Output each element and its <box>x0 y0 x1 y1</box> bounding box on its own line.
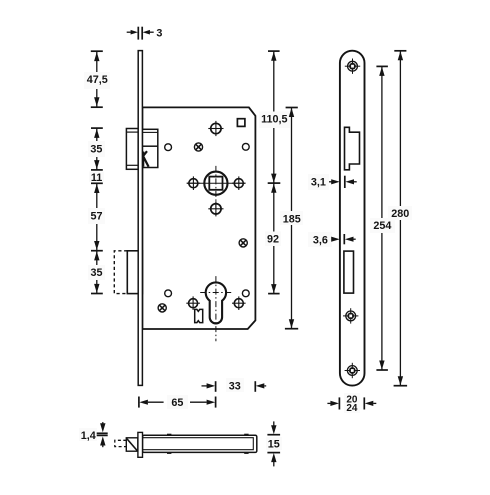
dimension texts <box>81 28 410 451</box>
254 arrows <box>379 67 384 76</box>
plate screw hole bottom <box>345 363 360 378</box>
dimension shafts <box>97 32 401 466</box>
dimension ticks <box>91 27 407 453</box>
dim 3,6 shafts <box>329 238 332 240</box>
text halos <box>79 72 412 450</box>
svg-text:3: 3 <box>156 28 162 40</box>
lock case body outline <box>142 107 255 329</box>
svg-text:3,6: 3,6 <box>313 234 328 246</box>
cylinder vertical centerline <box>215 276 217 341</box>
side view latch dashed retracted <box>115 440 127 446</box>
side view latch bolt <box>126 438 138 451</box>
57 arrows <box>94 184 99 193</box>
35b arrows <box>94 251 99 260</box>
svg-text:185: 185 <box>283 213 301 225</box>
striking plate front view <box>340 51 365 386</box>
65 arrows <box>139 400 148 405</box>
svg-text:254: 254 <box>373 220 391 232</box>
dim 15 shafts <box>273 421 275 425</box>
65 ticks <box>138 397 140 408</box>
deadbolt solid <box>127 251 142 294</box>
110,5 arrows <box>271 52 276 61</box>
dim 65 shafts <box>148 401 164 403</box>
dim 1,4 shafts <box>102 422 104 424</box>
dim 3,1 shafts <box>328 181 331 183</box>
dim 3 arrows <box>131 30 138 35</box>
svg-text:11: 11 <box>91 172 102 184</box>
185 arrows <box>289 108 294 117</box>
dim line 280 <box>399 51 401 386</box>
15 ticks <box>267 434 280 436</box>
dim 3 ticks <box>137 27 139 40</box>
svg-text:92: 92 <box>267 234 279 246</box>
svg-text:35: 35 <box>90 144 102 156</box>
dim line 110,5 / 92 <box>273 51 275 182</box>
euro cylinder profile <box>206 282 226 323</box>
47,5 arrows <box>94 52 99 61</box>
svg-text:15: 15 <box>268 438 280 450</box>
hub horizontal centerline <box>187 182 245 184</box>
15 arrows <box>271 425 276 434</box>
spring pictogram flag <box>195 309 203 322</box>
hub screw bottom <box>208 201 223 216</box>
screw cross left upper <box>194 143 202 151</box>
hub screw right <box>232 176 246 190</box>
3,1 arrows <box>331 179 340 184</box>
svg-text:47,5: 47,5 <box>87 74 108 86</box>
side view case <box>143 435 257 452</box>
small square hole top right <box>237 119 245 127</box>
280 arrows <box>398 51 403 60</box>
dim 33 shafts <box>202 385 208 387</box>
svg-text:1,4: 1,4 <box>81 430 96 442</box>
20/24 ticks <box>338 397 340 409</box>
33 ticks <box>215 381 217 392</box>
latch inner body <box>142 129 157 167</box>
latch head outside <box>126 129 138 170</box>
side view rivet bumps <box>167 434 171 436</box>
svg-text:110,5: 110,5 <box>261 114 287 126</box>
3,6 tick <box>343 234 345 244</box>
dim 20/24 shafts <box>327 402 330 404</box>
dim line 185 <box>291 108 293 329</box>
35 arrows <box>94 129 99 138</box>
svg-text:33: 33 <box>229 380 241 392</box>
20/24 arrows <box>330 401 339 406</box>
hub vertical centerline <box>215 166 217 215</box>
dimension arrowheads <box>94 30 403 462</box>
3,6 arrows <box>331 237 340 242</box>
svg-text:280: 280 <box>391 208 409 220</box>
guide hole left lower <box>165 290 172 297</box>
1,4 arrows <box>100 423 105 432</box>
left chain shafts <box>96 52 98 107</box>
screw cross bottom left <box>158 304 166 312</box>
254 ticks <box>376 65 388 67</box>
svg-text:65: 65 <box>171 397 183 409</box>
plate screw hole top <box>345 58 360 73</box>
side view faceplate <box>138 432 143 457</box>
hub screw left <box>187 176 201 190</box>
cylinder horizontal centerline <box>200 292 232 294</box>
3,1 tick <box>344 176 346 188</box>
guide hole right upper <box>242 143 249 150</box>
110,5/92 ticks <box>268 50 280 52</box>
svg-text:24: 24 <box>346 403 358 414</box>
dim 3 shafts <box>127 31 134 33</box>
1,4 ticks <box>97 432 108 434</box>
plate deadbolt cutout <box>344 251 354 293</box>
dim line 254 <box>381 67 383 370</box>
screw bottom right of cylinder <box>232 296 246 310</box>
faceplate front view <box>138 51 142 386</box>
svg-text:57: 57 <box>90 210 102 222</box>
left chain ticks <box>91 50 103 52</box>
280 ticks <box>394 50 406 52</box>
svg-text:35: 35 <box>90 267 102 279</box>
spindle hub <box>204 172 227 195</box>
deadbolt thrown dashed <box>114 251 127 294</box>
92 arrows <box>271 184 276 193</box>
plate screw hole middle <box>343 308 358 323</box>
185 ticks <box>286 107 298 109</box>
screw top <box>208 121 223 136</box>
plate latch cutout <box>345 127 360 170</box>
svg-text:3,1: 3,1 <box>311 176 326 188</box>
guide hole left upper <box>165 144 172 151</box>
screw bottom left of cylinder <box>186 296 200 310</box>
guide hole right lower <box>242 290 249 297</box>
33 arrows <box>207 383 216 388</box>
screw cross mid right <box>239 239 247 247</box>
latch spring k-shape <box>143 151 148 167</box>
